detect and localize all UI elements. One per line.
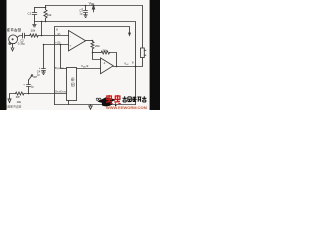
wire op1 output [86, 40, 93, 42]
svg-text:20k: 20k [103, 49, 108, 53]
watermark graduation cap [97, 96, 117, 108]
wire C2 to Ri [25, 35, 30, 37]
svg-text:10k: 10k [47, 13, 52, 17]
svg-text:10k: 10k [17, 100, 22, 104]
wire rail Vo1 top [46, 6, 143, 49]
svg-text:20k: 20k [31, 29, 36, 33]
pin arrow on IC edge [129, 33, 131, 35]
wire box to bus [68, 101, 70, 105]
label audio input (pseudo CJK) [7, 28, 21, 31]
node dots [45, 21, 47, 23]
svg-text:1μ: 1μ [79, 12, 82, 16]
svg-text:VDD: VDD [89, 1, 95, 6]
ground on bus [89, 105, 93, 110]
black bar right [150, 0, 160, 110]
IC box outline [55, 27, 130, 105]
svg-text:-: - [70, 34, 71, 38]
ground under C4 [42, 72, 45, 74]
wire feedback left leg [93, 52, 102, 54]
input jack J1 [9, 35, 18, 44]
resistor Ri [30, 34, 38, 37]
svg-text:C1: C1 [28, 12, 32, 16]
wire feedback stub [41, 22, 43, 36]
wire loop top [35, 7, 46, 9]
svg-text:ShutDown: ShutDown [55, 90, 68, 94]
wire op2 + input from box [77, 68, 101, 70]
capacitor C1 [32, 8, 36, 22]
ground under C1 branch [33, 22, 36, 27]
wire rail feedback to -IN [35, 22, 136, 105]
capacitor C4 [42, 69, 46, 73]
capacitor C5 wiper line [27, 80, 31, 94]
ground arrow under jack [11, 44, 14, 51]
wire bypass pin [61, 45, 67, 69]
ground under C3 [84, 15, 87, 18]
ground under pot [8, 99, 11, 103]
wire pot to shutdown pin [24, 93, 66, 95]
caption bottom left (pseudo CJK) [3, 105, 21, 108]
watermark site name black [123, 96, 147, 102]
control box inner text (pseudo CJK) [71, 77, 75, 86]
svg-text:0.39μ: 0.39μ [18, 42, 25, 46]
wire Ri to op1 inverting input [38, 35, 68, 37]
watermark chongchong red [106, 95, 121, 104]
svg-text:1μ: 1μ [31, 85, 34, 89]
supply VDD stub [93, 9, 95, 12]
wire feedback right leg [110, 53, 117, 67]
op-amp A1 [69, 31, 86, 51]
op-amp A2 [101, 58, 114, 74]
resistor 20k vertical [91, 41, 94, 53]
bottom bus [55, 104, 136, 106]
wire jack to C2 [17, 36, 22, 38]
svg-text:RP: RP [16, 95, 20, 99]
jack sleeve terminal [9, 43, 11, 45]
speaker load [141, 48, 145, 58]
svg-text:-1: -1 [103, 61, 106, 65]
potentiometer RP [16, 92, 24, 95]
svg-text:(3): (3) [57, 41, 60, 45]
svg-text:(2): (2) [57, 32, 60, 36]
capacitor C2 [23, 33, 25, 38]
svg-text:WWW.EEWORM.COM: WWW.EEWORM.COM [106, 106, 147, 110]
wire op2 output [113, 58, 142, 67]
wire C4 drop [43, 45, 45, 69]
wire pot left to ground [10, 94, 16, 99]
svg-text:-: - [55, 32, 56, 36]
resistor R1 [44, 6, 47, 22]
wire op1 + input [44, 44, 69, 46]
svg-text:Bypass: Bypass [55, 66, 64, 70]
terminal circles [96, 98, 98, 100]
black bar left [0, 0, 7, 110]
control block [67, 68, 77, 101]
svg-text:+: + [70, 43, 72, 47]
svg-text:20k: 20k [95, 44, 100, 48]
wire to op2 inv input [93, 53, 101, 60]
resistor 20k feedback [101, 51, 109, 54]
switch lever [29, 76, 32, 80]
svg-text:1μ: 1μ [37, 72, 40, 76]
capacitor C3 [84, 6, 88, 15]
